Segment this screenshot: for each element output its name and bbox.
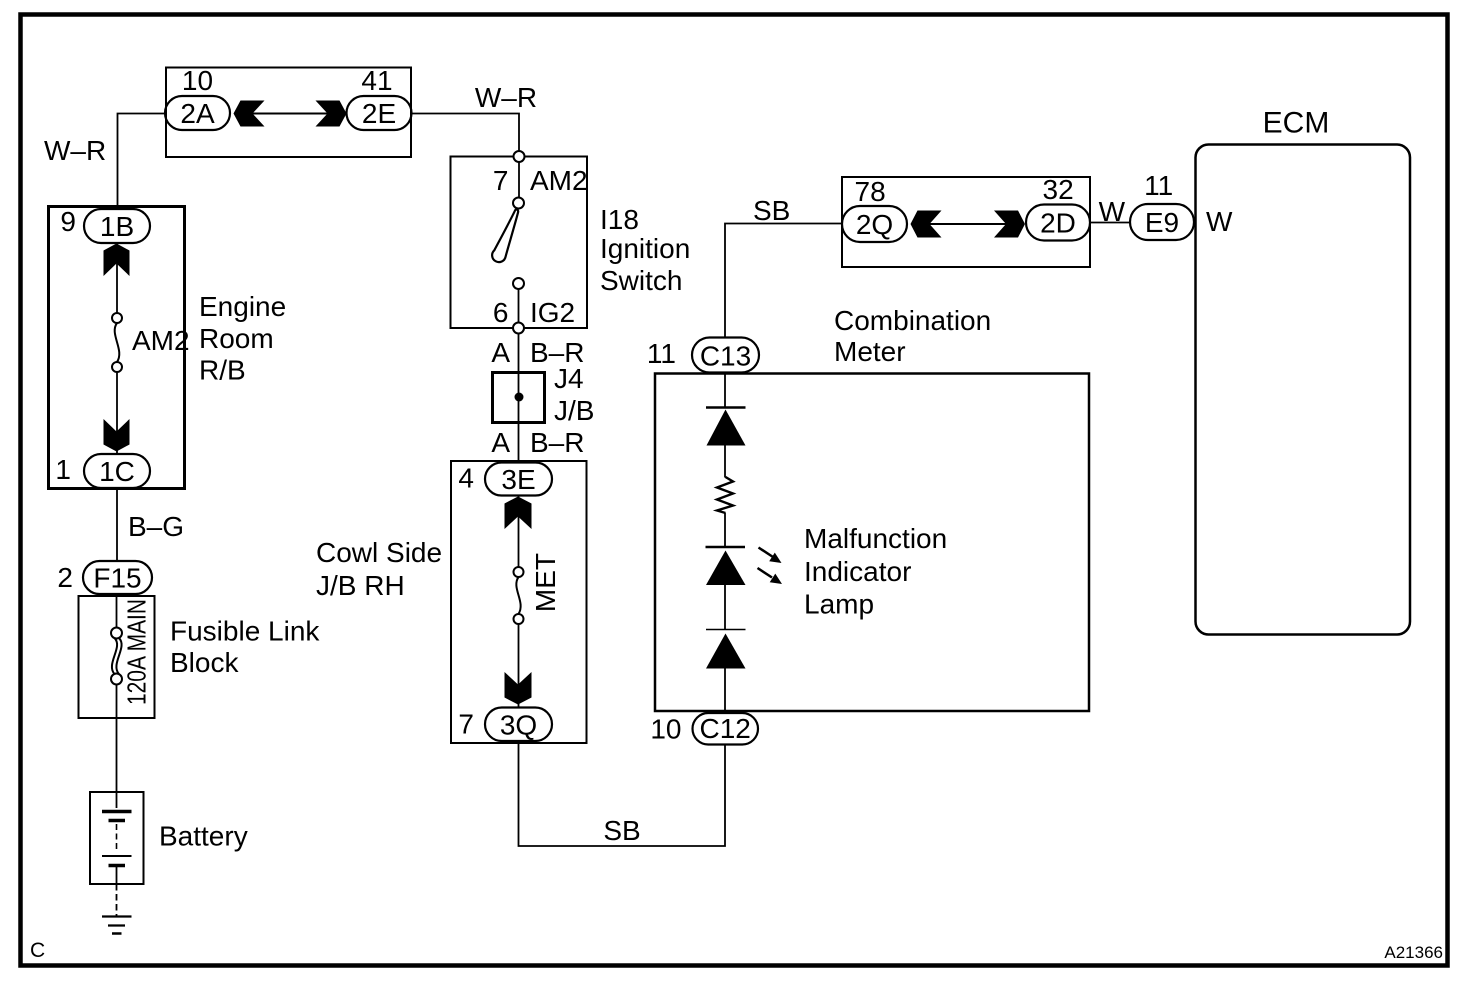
arrow (down, into 1C) bbox=[104, 419, 130, 452]
svg-text:10: 10 bbox=[182, 65, 213, 96]
connector 2D bbox=[1026, 205, 1090, 241]
arrow (up, into 3E) bbox=[505, 497, 532, 530]
svg-text:W–R: W–R bbox=[475, 82, 537, 113]
wire through Engine Room R/B (lower) bbox=[116, 372, 118, 454]
connector 3E bbox=[485, 463, 552, 496]
wire through cowl side J/B (lower) bbox=[518, 624, 520, 708]
svg-text:A: A bbox=[491, 337, 510, 368]
wire D2 to D3 bbox=[724, 585, 726, 630]
fusible link 120A MAIN bbox=[111, 628, 122, 639]
connector 3Q bbox=[485, 708, 552, 742]
svg-text:9: 9 bbox=[60, 206, 76, 237]
ground bbox=[102, 915, 132, 917]
node IG2 terminal bbox=[513, 323, 524, 334]
svg-text:Ignition: Ignition bbox=[600, 233, 690, 264]
wire C13 to diode D1 bbox=[724, 373, 726, 408]
wire IG2 contact to terminal bbox=[518, 289, 520, 323]
svg-text:Room: Room bbox=[199, 323, 274, 354]
wire from battery to ground bbox=[116, 884, 118, 916]
svg-text:3E: 3E bbox=[501, 464, 535, 495]
connector 1B bbox=[84, 209, 150, 243]
svg-text:C13: C13 bbox=[700, 341, 751, 372]
wire SB from C13 up and to 2Q bbox=[725, 224, 842, 338]
LED emission arrow 2 bbox=[758, 568, 773, 578]
svg-text:F15: F15 bbox=[93, 563, 141, 594]
svg-text:C12: C12 bbox=[700, 713, 751, 744]
malfunction indicator lamp LED D2 bbox=[706, 546, 746, 549]
connector C13 bbox=[692, 338, 759, 373]
connector 2Q bbox=[842, 206, 907, 242]
wire from fusible link to battery bbox=[116, 685, 118, 793]
fuse AM2 bbox=[112, 313, 122, 323]
svg-text:7: 7 bbox=[458, 709, 474, 740]
svg-text:1B: 1B bbox=[100, 211, 134, 242]
wire D1 to resistor bbox=[724, 446, 726, 478]
wire W-R from connector 2A to connector 1B bbox=[118, 114, 166, 210]
Combination Meter box bbox=[655, 374, 1089, 712]
svg-text:J/B RH: J/B RH bbox=[316, 570, 405, 601]
svg-text:11: 11 bbox=[647, 338, 676, 369]
svg-text:78: 78 bbox=[855, 176, 886, 207]
Engine Room R/B box bbox=[49, 207, 185, 489]
wire B-G from 1C to F15 bbox=[116, 488, 118, 561]
connector 2A bbox=[165, 96, 230, 130]
svg-text:Battery: Battery bbox=[159, 821, 248, 852]
svg-text:W: W bbox=[1099, 196, 1126, 227]
wire between connector arrows bbox=[928, 223, 1007, 225]
svg-text:3Q: 3Q bbox=[500, 710, 537, 741]
svg-text:Malfunction: Malfunction bbox=[804, 523, 947, 554]
wire B-R from IG2 to J4 and to 3E bbox=[518, 334, 520, 463]
svg-text:11: 11 bbox=[1144, 170, 1173, 201]
svg-text:W–R: W–R bbox=[44, 135, 106, 166]
arrow (left, male side of 2A) bbox=[234, 101, 265, 127]
svg-text:4: 4 bbox=[458, 463, 474, 494]
svg-text:AM2: AM2 bbox=[132, 325, 190, 356]
svg-text:2D: 2D bbox=[1040, 208, 1076, 239]
svg-text:B–G: B–G bbox=[128, 511, 184, 542]
svg-text:32: 32 bbox=[1043, 174, 1074, 205]
connector 2E bbox=[347, 96, 412, 130]
svg-text:W: W bbox=[1206, 206, 1233, 237]
svg-text:E9: E9 bbox=[1145, 207, 1179, 238]
svg-text:B–R: B–R bbox=[530, 427, 584, 458]
Fusible Link Block box bbox=[79, 596, 155, 718]
svg-text:Lamp: Lamp bbox=[804, 589, 874, 620]
svg-text:Switch: Switch bbox=[600, 265, 682, 296]
svg-text:2: 2 bbox=[57, 562, 73, 593]
junction connector box 2Q/2D bbox=[842, 177, 1090, 267]
junction block J4 J/B bbox=[493, 373, 545, 423]
svg-text:J4: J4 bbox=[554, 363, 584, 394]
svg-text:1C: 1C bbox=[99, 456, 135, 487]
svg-text:R/B: R/B bbox=[199, 355, 246, 386]
svg-text:1: 1 bbox=[55, 454, 71, 485]
connector 1C bbox=[84, 454, 150, 488]
svg-text:Fusible Link: Fusible Link bbox=[170, 616, 320, 647]
arrow (right, male side of 2D) bbox=[994, 211, 1025, 238]
svg-text:IG2: IG2 bbox=[530, 297, 575, 328]
svg-text:Engine: Engine bbox=[199, 291, 286, 322]
svg-text:MET: MET bbox=[530, 553, 561, 612]
junction connector box 2A/2E bbox=[166, 68, 411, 158]
svg-text:Combination: Combination bbox=[834, 305, 991, 336]
svg-text:AM2: AM2 bbox=[530, 165, 588, 196]
junction node in J4 bbox=[515, 393, 524, 402]
resistor bbox=[717, 477, 733, 513]
wire through Engine Room R/B (upper) bbox=[116, 243, 118, 313]
svg-text:2A: 2A bbox=[180, 98, 215, 129]
wire through cowl side J/B (upper) bbox=[518, 496, 520, 567]
svg-text:Meter: Meter bbox=[834, 336, 906, 367]
arrow (right, male side of 2E) bbox=[316, 101, 347, 127]
wire AM2 terminal to switch contact bbox=[518, 160, 520, 198]
switch contact (top) bbox=[513, 198, 524, 209]
diode D3 bbox=[706, 629, 746, 631]
svg-text:120A MAIN: 120A MAIN bbox=[122, 599, 152, 705]
svg-text:41: 41 bbox=[361, 65, 392, 96]
svg-text:Cowl Side: Cowl Side bbox=[316, 537, 442, 568]
svg-text:10: 10 bbox=[650, 714, 681, 745]
svg-text:2Q: 2Q bbox=[856, 209, 893, 240]
svg-text:J/B: J/B bbox=[554, 395, 594, 426]
svg-text:A21366: A21366 bbox=[1384, 943, 1443, 962]
wire W-R from connector 2E to ignition switch bbox=[412, 114, 520, 157]
Cowl Side J/B RH box bbox=[451, 461, 587, 743]
wire between connector arrows bbox=[250, 113, 330, 115]
svg-text:7: 7 bbox=[493, 165, 509, 196]
svg-text:Block: Block bbox=[170, 647, 239, 678]
svg-text:I18: I18 bbox=[600, 204, 639, 235]
fuse MET bbox=[514, 567, 524, 577]
battery bbox=[90, 792, 144, 884]
arrow (up, into 1B) bbox=[104, 244, 130, 277]
wire from F15 into fusible link bbox=[116, 594, 118, 628]
svg-text:Indicator: Indicator bbox=[804, 556, 911, 587]
connector E9 bbox=[1130, 204, 1194, 240]
connector C12 bbox=[693, 713, 759, 745]
ECM box bbox=[1196, 145, 1411, 635]
switch lever bbox=[492, 209, 518, 262]
svg-text:A: A bbox=[491, 427, 510, 458]
ignition switch I18 box bbox=[451, 157, 588, 329]
connector F15 bbox=[83, 561, 152, 594]
svg-text:SB: SB bbox=[753, 195, 790, 226]
LED emission arrow 1 bbox=[759, 548, 774, 558]
svg-text:ECM: ECM bbox=[1263, 107, 1330, 140]
svg-text:SB: SB bbox=[603, 815, 640, 846]
wire W from 2D to E9 bbox=[1090, 222, 1130, 224]
wire resistor to LED D2 bbox=[724, 513, 726, 546]
diode D1 bbox=[706, 406, 746, 409]
arrow (down, into 3Q) bbox=[505, 672, 532, 705]
wire D3 to C12 bbox=[724, 669, 726, 714]
arrow (left, male side of 2Q) bbox=[911, 211, 942, 238]
node AM2 terminal bbox=[514, 151, 525, 162]
svg-text:6: 6 bbox=[493, 297, 509, 328]
svg-text:2E: 2E bbox=[362, 98, 396, 129]
svg-text:C: C bbox=[30, 939, 45, 962]
wire SB from 3Q to C12 bbox=[519, 741, 726, 846]
switch contact (bottom) bbox=[513, 278, 524, 289]
